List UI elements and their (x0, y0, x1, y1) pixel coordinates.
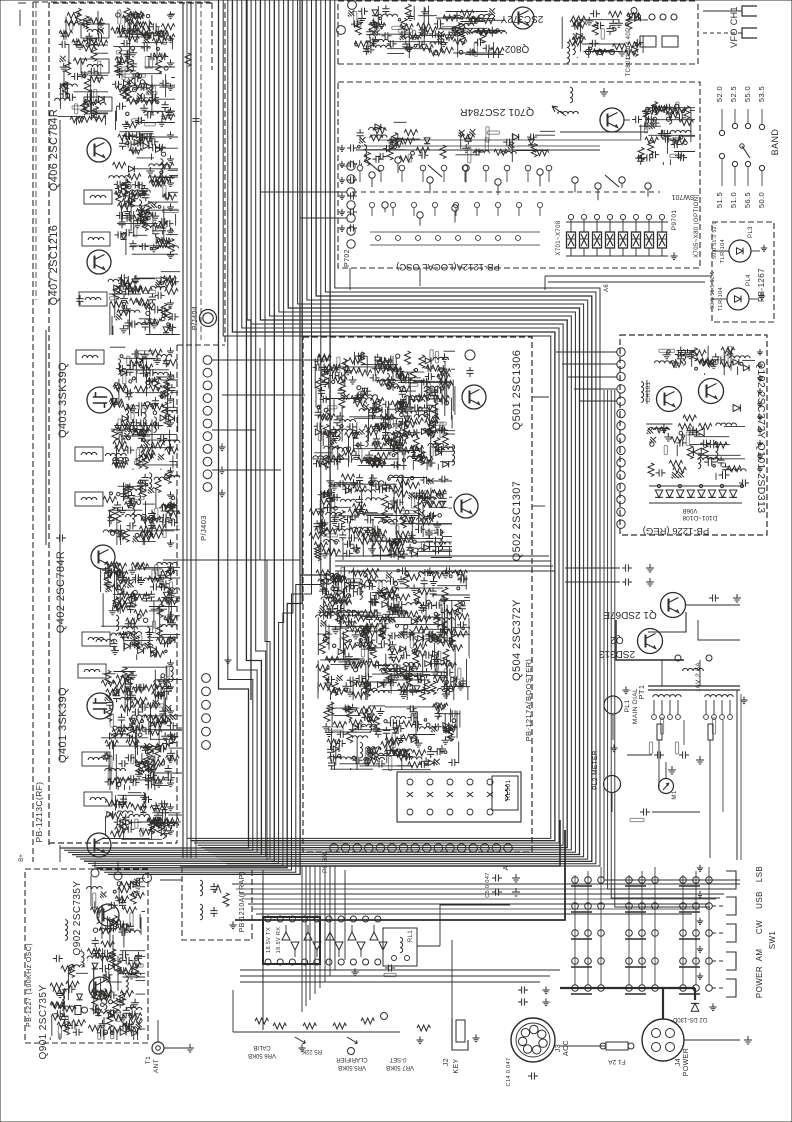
svg-text:PB-1210A(TRAP): PB-1210A(TRAP) (239, 872, 246, 933)
svg-text:Q407 2SC1216: Q407 2SC1216 (48, 225, 60, 306)
svg-text:Q402 2SC784R: Q402 2SC784R (55, 551, 67, 633)
svg-text:Q101 2SD313: Q101 2SD313 (755, 443, 767, 514)
svg-text:ANT: ANT (136, 883, 142, 896)
svg-text:PB-1227 (100KHz OSC): PB-1227 (100KHz OSC) (26, 943, 33, 1027)
svg-text:Q406 2SC784R: Q406 2SC784R (48, 109, 60, 191)
svg-text:PL1: PL1 (624, 700, 631, 713)
svg-text:52.5: 52.5 (729, 86, 738, 102)
svg-text:A6: A6 (604, 284, 610, 292)
svg-text:PB-1217A(BOOSTER): PB-1217A(BOOSTER) (524, 659, 533, 742)
svg-text:TC801~804 40P: TC801~804 40P (626, 27, 632, 76)
svg-text:J3: J3 (555, 1044, 562, 1052)
svg-text:Q504 2SC372Y: Q504 2SC372Y (511, 599, 523, 681)
svg-text:B+: B+ (19, 854, 25, 862)
svg-text:VR6 50KB: VR6 50KB (248, 1052, 276, 1058)
svg-text:V06B: V06B (683, 507, 698, 513)
svg-text:VFO CH1: VFO CH1 (729, 6, 739, 48)
svg-text:PL3: PL3 (748, 226, 754, 238)
svg-text:PB-1226 (REG): PB-1226 (REG) (643, 525, 710, 536)
svg-text:CLARIFIER: CLARIFIER (336, 1056, 368, 1062)
svg-text:USB: USB (755, 891, 764, 909)
svg-text:BAND: BAND (770, 129, 780, 156)
svg-text:ACC: ACC (563, 1040, 570, 1056)
svg-text:16V 2.5A: 16V 2.5A (695, 662, 702, 692)
svg-text:Q502 2SC1307: Q502 2SC1307 (511, 481, 523, 562)
svg-text:LSB: LSB (755, 866, 764, 882)
svg-text:Q403 3SK39Q: Q403 3SK39Q (57, 362, 69, 438)
svg-text:P/J403: P/J403 (199, 515, 208, 541)
svg-text:P9-501: P9-501 (323, 851, 329, 873)
svg-text:VR7 50KB: VR7 50KB (386, 1064, 414, 1070)
svg-text:PB-1267: PB-1267 (757, 268, 766, 302)
svg-text:55.0: 55.0 (743, 86, 752, 102)
svg-text:CH101: CH101 (646, 381, 652, 402)
svg-text:53.5: 53.5 (757, 86, 766, 102)
svg-text:T1: T1 (145, 1056, 152, 1064)
svg-text:50.0: 50.0 (757, 192, 766, 208)
svg-text:Q701 2SC784R: Q701 2SC784R (460, 106, 535, 118)
svg-text:X705~X80 (OPTION): X705~X80 (OPTION) (694, 194, 700, 258)
svg-text:M1: M1 (672, 790, 678, 799)
svg-text:50.5 51.5 52.5: 50.5 51.5 52.5 (710, 271, 716, 309)
svg-text:RL1: RL1 (408, 930, 414, 942)
svg-text:C5 0.047: C5 0.047 (485, 872, 491, 898)
svg-text:PL2 METER: PL2 METER (592, 750, 599, 790)
svg-text:D2 DS-130D: D2 DS-130D (672, 1016, 707, 1022)
svg-text:F1 2A: F1 2A (608, 1058, 626, 1065)
svg-text:J4: J4 (675, 1058, 682, 1066)
svg-text:KEY: KEY (453, 1058, 460, 1073)
svg-text:ANT: ANT (153, 1059, 160, 1073)
svg-text:2SC372Y: 2SC372Y (500, 13, 543, 24)
svg-text:51.5: 51.5 (715, 192, 724, 208)
svg-text:Q501 2SC1306: Q501 2SC1306 (511, 350, 523, 431)
svg-text:J2: J2 (443, 1058, 450, 1066)
svg-text:CW: CW (755, 920, 764, 934)
svg-text:AM: AM (755, 949, 764, 962)
svg-text:P702: P702 (344, 249, 351, 267)
svg-text:D101~D108: D101~D108 (682, 514, 717, 521)
svg-text:SW1: SW1 (768, 931, 777, 950)
svg-text:PL4: PL4 (746, 274, 752, 286)
svg-text:C14 0.047: C14 0.047 (506, 1058, 512, 1087)
svg-text:Q2: Q2 (610, 634, 624, 645)
svg-text:PB-1213C(RF): PB-1213C(RF) (34, 781, 44, 842)
svg-text:Q401 3SK39Q: Q401 3SK39Q (57, 687, 69, 763)
svg-text:Q902 2SC735Y: Q902 2SC735Y (72, 881, 83, 956)
svg-text:P/J404: P/J404 (192, 306, 199, 330)
svg-text:SW701: SW701 (671, 193, 694, 200)
svg-text:X701~X708: X701~X708 (556, 220, 562, 255)
svg-text:2SD313: 2SD313 (598, 648, 635, 659)
svg-text:0-SET: 0-SET (389, 1056, 406, 1062)
svg-text:18.5V TX: 18.5V TX (266, 927, 272, 953)
svg-text:Q901 2SC735Y: Q901 2SC735Y (38, 985, 49, 1060)
svg-text:18.5V RX: 18.5V RX (276, 927, 282, 954)
svg-text:VR5 50KB: VR5 50KB (338, 1064, 366, 1070)
svg-text:PB-1212A(LOCAL OSC): PB-1212A(LOCAL OSC) (396, 261, 500, 272)
svg-text:CALIB: CALIB (253, 1044, 270, 1050)
svg-text:P9701: P9701 (671, 210, 678, 231)
svg-text:MAIN DIAL: MAIN DIAL (632, 688, 639, 724)
svg-text:R5 22K: R5 22K (302, 1048, 322, 1054)
svg-text:POWER: POWER (683, 1048, 690, 1076)
svg-text:Q102 2SC372Y: Q102 2SC372Y (755, 361, 767, 439)
svg-text:51.0: 51.0 (729, 192, 738, 208)
svg-text:56.5: 56.5 (743, 192, 752, 208)
svg-text:Q802: Q802 (504, 43, 529, 54)
svg-text:A: A (503, 865, 510, 870)
svg-text:POWER: POWER (755, 966, 764, 998)
svg-text:Q1 2SD67E: Q1 2SD67E (603, 609, 657, 620)
svg-text:50.0 51.0 52.0: 50.0 51.0 52.0 (712, 221, 718, 259)
svg-text:52.0: 52.0 (715, 86, 724, 102)
